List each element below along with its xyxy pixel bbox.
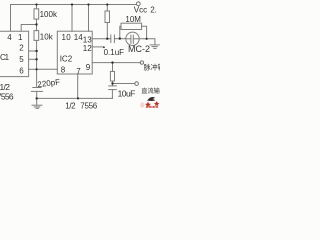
svg-text:6: 6 — [19, 66, 24, 75]
svg-text:MC-2: MC-2 — [128, 44, 150, 54]
svg-text:C1: C1 — [0, 53, 10, 62]
svg-text:13: 13 — [83, 35, 92, 44]
svg-text:1/2: 1/2 — [0, 82, 10, 92]
svg-text:7556: 7556 — [0, 91, 14, 101]
svg-text:8: 8 — [61, 65, 66, 74]
svg-text:Vcc: Vcc — [134, 5, 147, 14]
svg-text:7556: 7556 — [80, 101, 97, 110]
svg-text:IC2: IC2 — [60, 54, 73, 63]
svg-text:10M: 10M — [125, 15, 141, 24]
svg-text:2: 2 — [19, 43, 24, 52]
svg-text:0.1uF: 0.1uF — [104, 48, 125, 57]
svg-text:10k: 10k — [40, 33, 54, 42]
svg-text:脉冲输出: 脉冲输出 — [144, 63, 160, 72]
svg-text:10uF: 10uF — [118, 88, 136, 98]
svg-text:1/2: 1/2 — [65, 101, 76, 110]
svg-text:9: 9 — [86, 63, 91, 72]
svg-text:4: 4 — [7, 33, 12, 42]
svg-text:直流输出: 直流输出 — [141, 87, 160, 95]
svg-text:7: 7 — [76, 67, 81, 76]
svg-text:12: 12 — [83, 44, 92, 53]
svg-text:2.: 2. — [150, 5, 157, 14]
svg-text:10: 10 — [62, 33, 72, 42]
svg-text:220pF: 220pF — [37, 77, 61, 89]
svg-text:5: 5 — [19, 55, 24, 64]
svg-text:100k: 100k — [40, 10, 58, 19]
svg-text:1: 1 — [18, 33, 23, 42]
